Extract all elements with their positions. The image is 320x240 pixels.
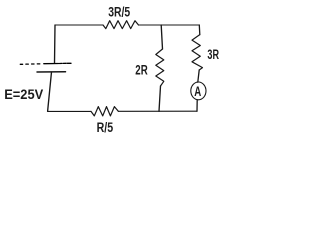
wire battery to bottom-left corner (48, 72, 52, 111)
resistor R1 3R/5 (103, 21, 139, 29)
wire top-right segment (161, 24, 199, 26)
wire top-middle segment (139, 24, 162, 26)
battery E1 bottom plate (37, 71, 66, 73)
wire bottom-left segment (48, 110, 91, 112)
svg-text:3R/5: 3R/5 (108, 5, 130, 20)
ammeter A1 circle (191, 82, 206, 100)
battery E1 top plate (20, 63, 71, 64)
wire top-left segment (55, 24, 103, 26)
svg-text:A: A (194, 83, 201, 99)
resistor R4 3R (192, 35, 203, 70)
svg-text:3R: 3R (207, 47, 219, 62)
svg-text:2R: 2R (135, 62, 148, 77)
wire ammeter to bottom-right corner (196, 100, 198, 111)
resistor R2 R/5 (91, 107, 118, 116)
svg-text:E=25V: E=25V (4, 86, 44, 102)
resistor R3 2R (156, 49, 164, 86)
wire 2R branch lower (159, 86, 161, 111)
wire 3R to ammeter (198, 70, 199, 82)
wire bottom-right segment (118, 110, 197, 112)
wire right branch upper (198, 25, 201, 35)
wire 2R branch upper (161, 25, 162, 49)
wire left vertical to battery (54, 25, 57, 63)
svg-text:R/5: R/5 (97, 120, 114, 135)
